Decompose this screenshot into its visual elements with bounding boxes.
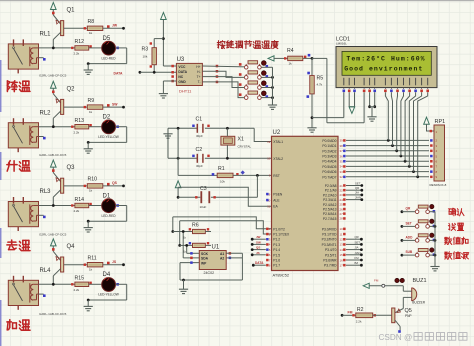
svg-text:H+: H+ xyxy=(196,65,200,69)
svg-text:DATA: DATA xyxy=(114,71,123,75)
svg-text:R11: R11 xyxy=(88,255,97,261)
svg-text:1k: 1k xyxy=(89,31,93,35)
svg-text:AT89C52: AT89C52 xyxy=(273,273,290,278)
svg-text:H-: H- xyxy=(197,70,200,74)
svg-text:P1.7: P1.7 xyxy=(273,264,280,268)
svg-text:CRYSTAL: CRYSTAL xyxy=(238,145,252,149)
svg-text:Q3: Q3 xyxy=(67,165,76,171)
svg-text:13: 13 xyxy=(340,243,344,247)
svg-text:2.2k: 2.2k xyxy=(74,288,80,292)
svg-text:2.2k: 2.2k xyxy=(74,130,80,134)
svg-text:LM016L: LM016L xyxy=(336,42,347,46)
svg-text:P2.1/A9: P2.1/A9 xyxy=(325,189,337,193)
svg-text:R15: R15 xyxy=(75,276,85,282)
svg-text:17: 17 xyxy=(340,264,344,268)
svg-text:Q1: Q1 xyxy=(67,8,76,14)
svg-text:34: 34 xyxy=(340,165,344,169)
svg-text:P0.3/AD3: P0.3/AD3 xyxy=(322,155,336,159)
svg-text:G2RL-1AB-CF-DC5: G2RL-1AB-CF-DC5 xyxy=(39,73,67,77)
svg-text:35: 35 xyxy=(340,160,344,164)
svg-text:SUB: SUB xyxy=(406,250,413,254)
svg-text:QS: QS xyxy=(112,181,118,185)
svg-text:P3.5/T1: P3.5/T1 xyxy=(325,253,337,257)
svg-text:R12: R12 xyxy=(75,39,85,45)
svg-text:R10: R10 xyxy=(88,177,98,183)
svg-text:R1: R1 xyxy=(218,166,225,172)
svg-text:WP: WP xyxy=(201,261,207,265)
svg-text:BZ: BZ xyxy=(355,261,359,265)
svg-text:U2: U2 xyxy=(273,130,281,136)
svg-text:14: 14 xyxy=(340,248,344,252)
svg-text:QR: QR xyxy=(406,207,411,211)
svg-text:T+: T+ xyxy=(197,75,201,79)
svg-text:R14: R14 xyxy=(75,197,85,203)
svg-text:P2.2/A10: P2.2/A10 xyxy=(323,193,337,197)
svg-text:38: 38 xyxy=(340,144,344,148)
svg-text:LED-RED: LED-RED xyxy=(102,214,117,218)
svg-text:XTAL2: XTAL2 xyxy=(273,157,283,161)
svg-text:QR: QR xyxy=(355,186,359,190)
svg-text:QS: QS xyxy=(256,246,260,250)
svg-text:1k: 1k xyxy=(289,62,293,66)
svg-text:PNP: PNP xyxy=(405,314,412,318)
svg-text:T-: T- xyxy=(198,80,201,84)
svg-text:QR: QR xyxy=(355,235,359,239)
svg-text:ALE: ALE xyxy=(273,199,280,203)
svg-text:LED-YELLOW: LED-YELLOW xyxy=(98,293,119,297)
svg-text:2.2k: 2.2k xyxy=(356,320,362,324)
svg-text:R5: R5 xyxy=(317,76,324,82)
svg-text:1k: 1k xyxy=(89,110,93,114)
svg-text:R3: R3 xyxy=(142,47,149,53)
svg-text:1k: 1k xyxy=(89,189,93,193)
svg-text:4.7k: 4.7k xyxy=(317,83,323,87)
svg-text:JW: JW xyxy=(256,235,261,239)
svg-text:FM: FM xyxy=(348,311,353,315)
svg-text:R8: R8 xyxy=(88,19,95,25)
svg-text:P0.4/AD4: P0.4/AD4 xyxy=(322,160,336,164)
svg-text:31: 31 xyxy=(267,205,271,209)
svg-text:P2.6/A14: P2.6/A14 xyxy=(323,212,337,216)
svg-text:12: 12 xyxy=(340,238,344,242)
svg-text:RL1: RL1 xyxy=(40,32,52,38)
svg-text:U1: U1 xyxy=(212,245,220,251)
svg-text:P2.5/A13: P2.5/A13 xyxy=(323,208,337,212)
svg-text:26: 26 xyxy=(340,207,344,211)
svg-text:A1: A1 xyxy=(220,252,224,256)
svg-text:P3.3/INT1: P3.3/INT1 xyxy=(322,243,337,247)
svg-text:R4: R4 xyxy=(287,48,294,54)
svg-text:SCK: SCK xyxy=(201,252,209,256)
svg-text:P0.2/AD2: P0.2/AD2 xyxy=(322,149,336,153)
svg-text:G2RL-1AB-CF-DC5: G2RL-1AB-CF-DC5 xyxy=(39,232,67,236)
svg-text:16: 16 xyxy=(340,258,344,262)
svg-text:SET: SET xyxy=(355,181,361,185)
svg-text:X1: X1 xyxy=(238,137,244,143)
svg-text:RST: RST xyxy=(273,174,280,178)
svg-text:P0.1/AD1: P0.1/AD1 xyxy=(322,144,336,148)
svg-text:FM: FM xyxy=(374,278,379,282)
svg-text:11: 11 xyxy=(340,232,343,236)
svg-text:DATA: DATA xyxy=(255,261,264,265)
svg-text:P0.5/AD5: P0.5/AD5 xyxy=(322,165,336,169)
svg-text:24: 24 xyxy=(340,198,344,202)
svg-text:P3.1/TXD: P3.1/TXD xyxy=(322,233,337,237)
svg-text:1k: 1k xyxy=(89,267,93,271)
svg-text:SET: SET xyxy=(406,221,412,225)
svg-text:D1: D1 xyxy=(103,193,111,199)
svg-text:P1.0/T2: P1.0/T2 xyxy=(273,227,285,231)
svg-text:36: 36 xyxy=(340,154,344,158)
svg-text:P0.7/AD7: P0.7/AD7 xyxy=(322,175,336,179)
svg-text:PSEN: PSEN xyxy=(273,193,283,197)
svg-text:Good environment: Good environment xyxy=(344,66,423,73)
svg-text:G2RL-1AB-CF-DC5: G2RL-1AB-CF-DC5 xyxy=(39,153,67,157)
svg-text:39: 39 xyxy=(340,139,344,143)
svg-text:P0.0/AD0: P0.0/AD0 xyxy=(322,139,336,143)
svg-text:10uF: 10uF xyxy=(200,205,207,209)
svg-text:32: 32 xyxy=(340,175,344,179)
svg-text:19: 19 xyxy=(267,140,271,144)
svg-text:Q4: Q4 xyxy=(67,244,76,250)
svg-text:JW: JW xyxy=(112,24,118,28)
svg-text:Q2: Q2 xyxy=(67,86,76,92)
svg-text:RL4: RL4 xyxy=(40,268,52,274)
svg-text:R9: R9 xyxy=(88,98,95,104)
svg-text:D4: D4 xyxy=(103,272,111,278)
svg-text:SET: SET xyxy=(355,240,361,244)
svg-text:P3.7/RD: P3.7/RD xyxy=(324,264,337,268)
svg-text:RL3: RL3 xyxy=(40,189,52,195)
svg-text:15: 15 xyxy=(340,253,344,257)
svg-text:FM: FM xyxy=(355,256,360,260)
svg-text:A2: A2 xyxy=(220,257,224,261)
svg-text:BUZ1: BUZ1 xyxy=(413,278,427,284)
svg-text:P2.3/A11: P2.3/A11 xyxy=(323,198,336,202)
svg-text:BUZZER: BUZZER xyxy=(412,300,425,304)
svg-text:25: 25 xyxy=(340,203,344,207)
svg-text:SW: SW xyxy=(112,102,118,106)
svg-text:R2: R2 xyxy=(357,307,364,313)
svg-text:27: 27 xyxy=(340,212,344,216)
svg-text:JS: JS xyxy=(112,260,117,264)
svg-text:G2RL-1AB-CF-DC5: G2RL-1AB-CF-DC5 xyxy=(39,312,67,316)
svg-text:24C02: 24C02 xyxy=(204,271,215,275)
svg-text:SDA: SDA xyxy=(201,257,209,261)
svg-text:JS: JS xyxy=(256,251,260,255)
svg-text:JIA: JIA xyxy=(355,191,359,195)
svg-text:P3.6/WR: P3.6/WR xyxy=(323,259,337,263)
svg-text:C1: C1 xyxy=(196,117,203,123)
svg-text:R6: R6 xyxy=(192,223,199,229)
svg-text:LED-YELLOW: LED-YELLOW xyxy=(98,135,119,139)
svg-text:DHT11: DHT11 xyxy=(179,89,192,94)
svg-text:P2.4/A12: P2.4/A12 xyxy=(323,203,337,207)
svg-text:10: 10 xyxy=(340,227,344,231)
svg-text:P3.0/RXD: P3.0/RXD xyxy=(322,227,337,231)
svg-text:30pF: 30pF xyxy=(196,164,203,168)
svg-text:10k: 10k xyxy=(220,180,225,184)
svg-text:JIA: JIA xyxy=(355,246,359,250)
svg-text:XTAL1: XTAL1 xyxy=(273,140,283,144)
svg-text:2.2k: 2.2k xyxy=(74,52,80,56)
svg-text:CSDN @: CSDN @ xyxy=(379,333,413,342)
svg-text:P1.3: P1.3 xyxy=(273,243,280,247)
svg-text:U3: U3 xyxy=(177,57,185,63)
svg-text:P2.7/A15: P2.7/A15 xyxy=(323,217,337,221)
svg-text:NC: NC xyxy=(178,75,183,79)
svg-text:RL2: RL2 xyxy=(40,110,52,116)
svg-text:SW: SW xyxy=(256,240,261,244)
svg-text:18: 18 xyxy=(267,157,271,161)
svg-text:JIAN: JIAN xyxy=(355,195,361,199)
svg-text:RESPACK-8: RESPACK-8 xyxy=(430,183,447,187)
svg-text:21: 21 xyxy=(340,184,344,188)
svg-text:P2.0/A8: P2.0/A8 xyxy=(325,184,337,188)
svg-text:R13: R13 xyxy=(75,118,85,124)
svg-text:P3.4/T0: P3.4/T0 xyxy=(325,248,337,252)
svg-text:JIAN: JIAN xyxy=(355,251,361,255)
svg-text:10k: 10k xyxy=(143,55,148,59)
svg-text:37: 37 xyxy=(340,149,344,153)
svg-text:22: 22 xyxy=(340,189,344,193)
svg-text:GND: GND xyxy=(178,80,186,84)
svg-text:D2: D2 xyxy=(103,115,111,121)
svg-text:P1.4: P1.4 xyxy=(273,248,280,252)
svg-text:C2: C2 xyxy=(196,147,203,153)
svg-text:VCC: VCC xyxy=(178,65,186,69)
svg-text:P0.6/AD6: P0.6/AD6 xyxy=(322,170,336,174)
svg-text:23: 23 xyxy=(340,193,344,197)
svg-text:P1.2: P1.2 xyxy=(273,238,280,242)
svg-text:33: 33 xyxy=(340,170,344,174)
svg-text:D5: D5 xyxy=(103,36,111,42)
svg-text:30pF: 30pF xyxy=(196,134,203,138)
svg-text:P1.6: P1.6 xyxy=(273,259,280,263)
svg-text:P3.2/INT0: P3.2/INT0 xyxy=(322,238,337,242)
svg-text:Tem:26°C Hum:60%: Tem:26°C Hum:60% xyxy=(346,55,425,63)
svg-text:P1.1/T2EX: P1.1/T2EX xyxy=(273,233,290,237)
svg-text:P1.5: P1.5 xyxy=(273,253,280,257)
svg-text:28: 28 xyxy=(340,217,344,221)
svg-text:C3: C3 xyxy=(200,186,207,192)
svg-text:DATA: DATA xyxy=(178,70,187,74)
svg-text:2.2k: 2.2k xyxy=(74,209,80,213)
svg-text:RP1: RP1 xyxy=(435,119,446,125)
svg-text:LED-RED: LED-RED xyxy=(102,56,117,60)
svg-text:ADD: ADD xyxy=(406,235,414,239)
